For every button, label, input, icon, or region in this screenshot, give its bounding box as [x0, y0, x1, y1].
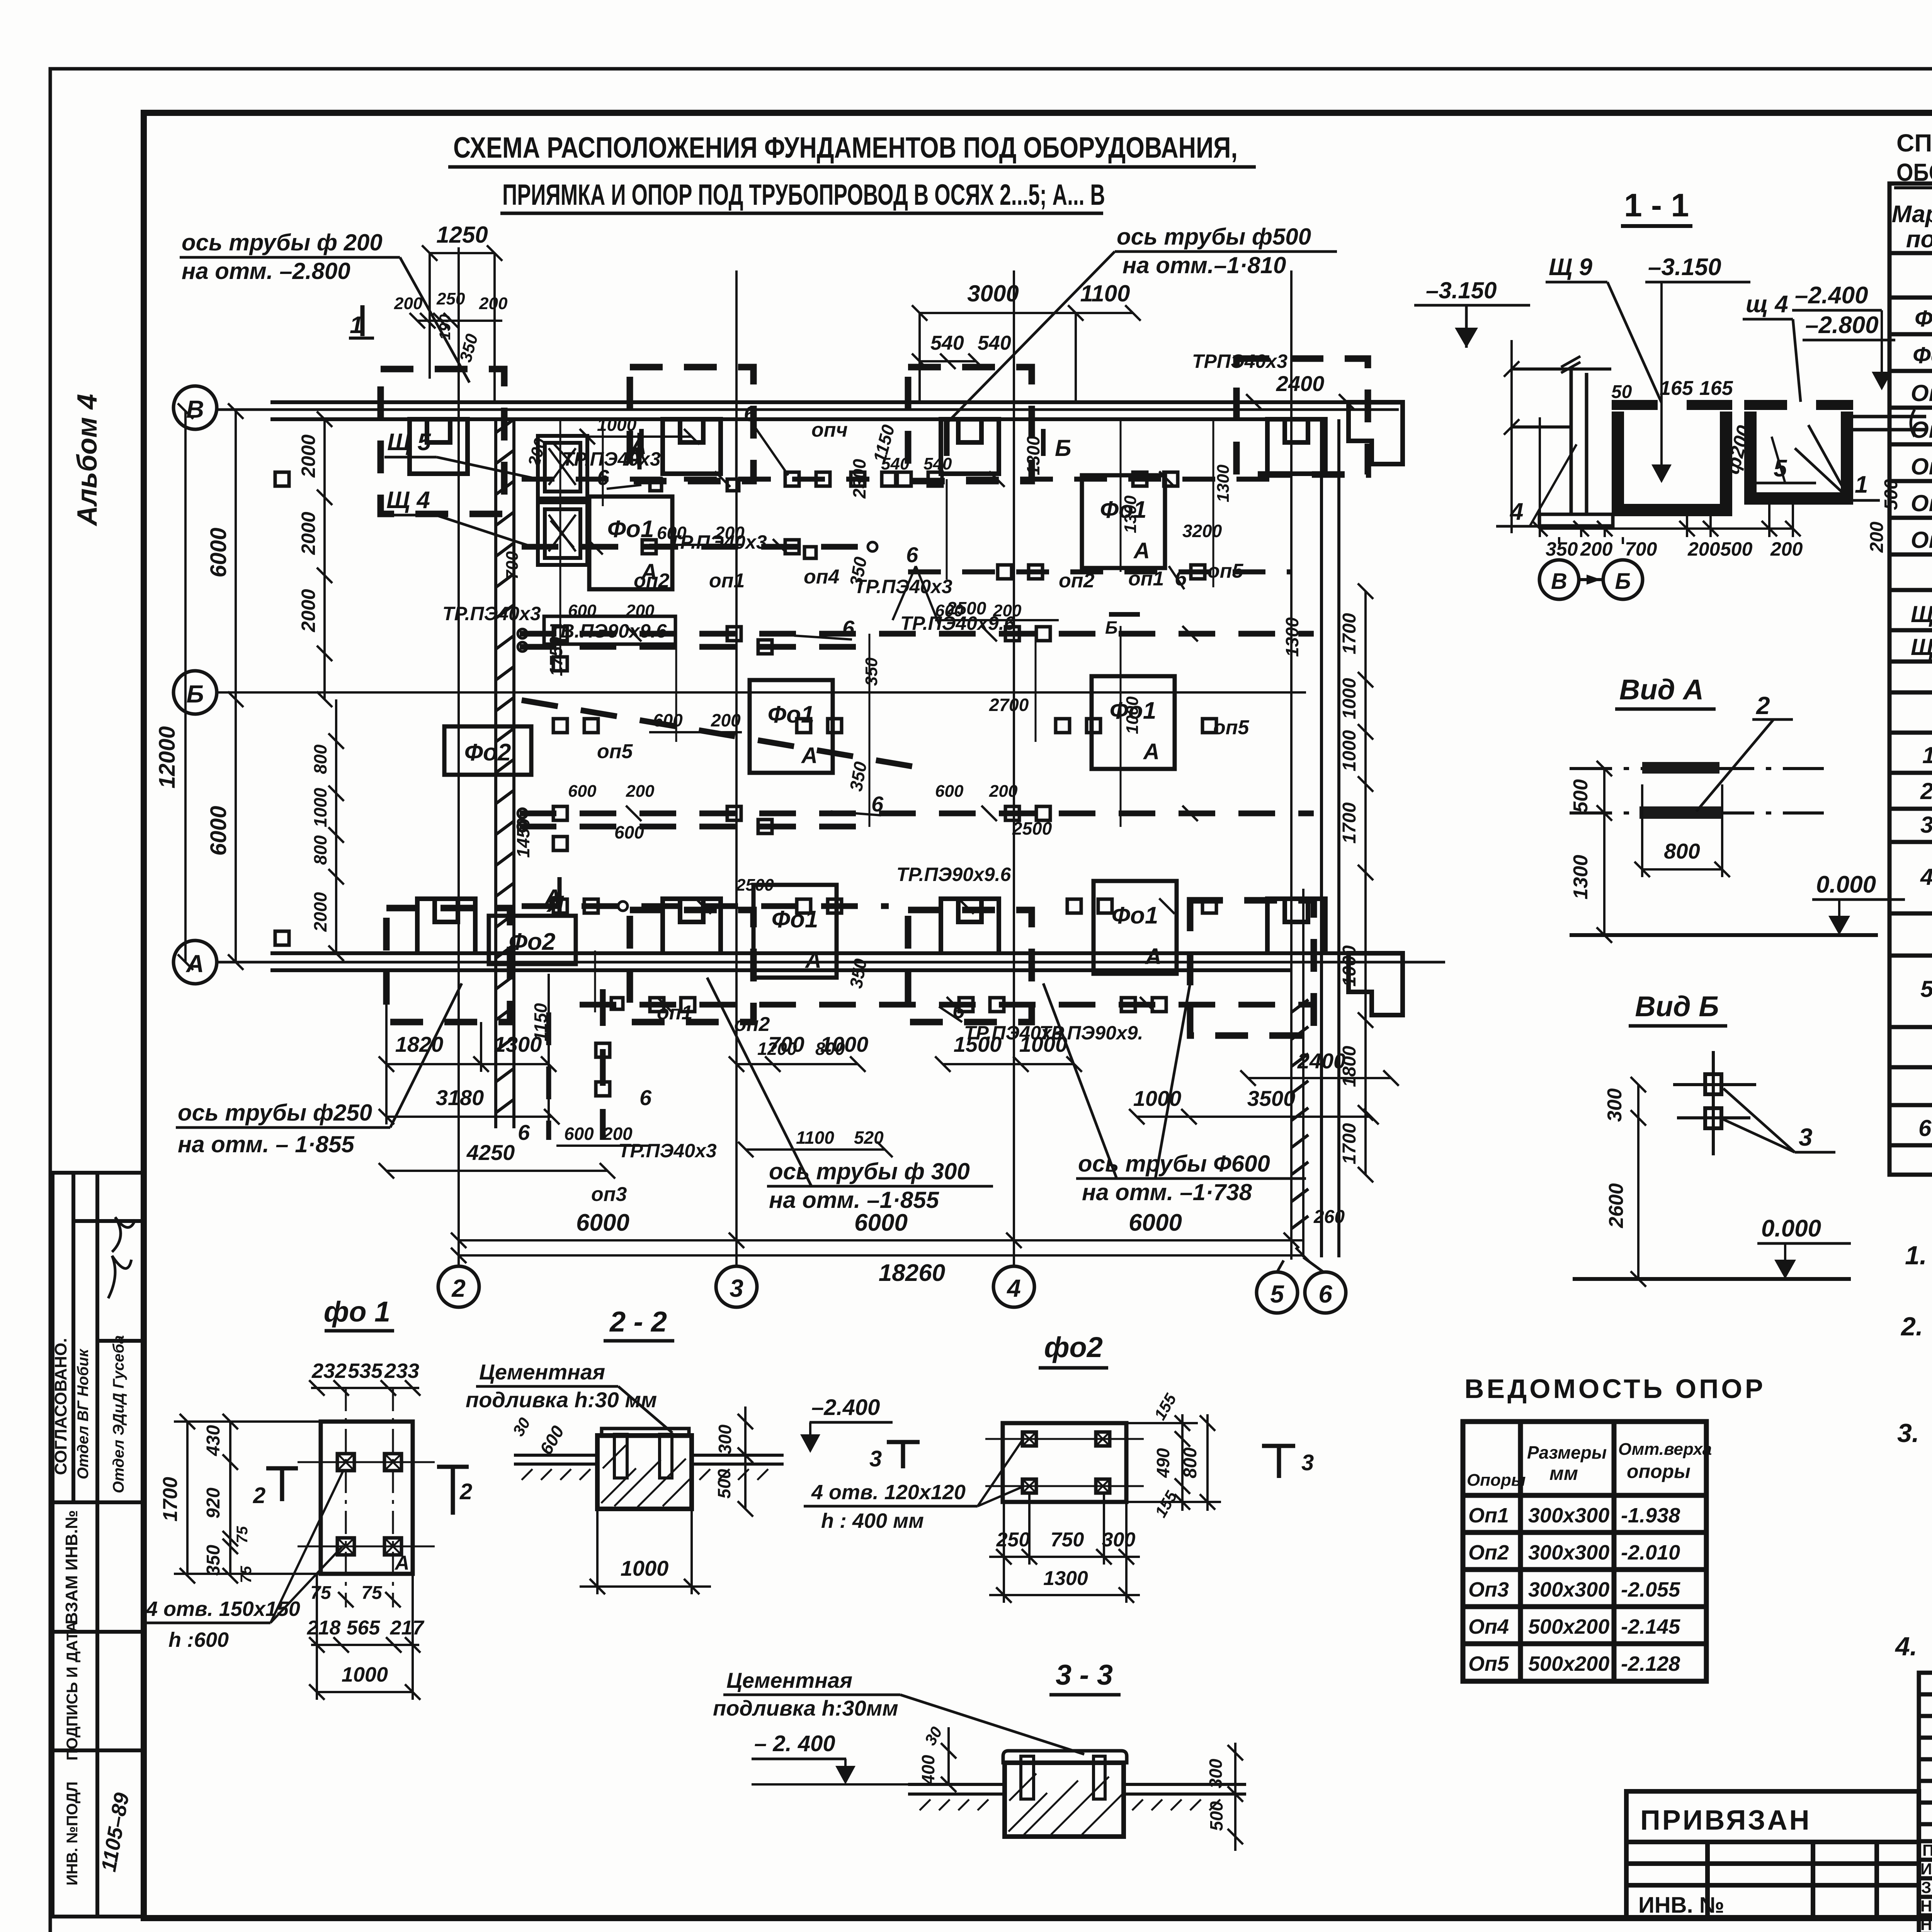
svg-text:Омт.верха: Омт.верха [1618, 1440, 1712, 1459]
svg-text:ПРИЯМКА И ОПОР ПОД ТРУБОПРОВОД: ПРИЯМКА И ОПОР ПОД ТРУБОПРОВОД В ОСЯХ 2.… [502, 179, 1105, 211]
section 1-1 labels [1546, 254, 1901, 553]
section 1-1 callout numbers [1496, 425, 1880, 526]
svg-text:430: 430 [203, 1425, 224, 1456]
svg-text:ТВ.ПЭ90х9.6: ТВ.ПЭ90х9.6 [549, 620, 667, 642]
svg-text:2.: 2. [1900, 1312, 1923, 1341]
fo2 slab [1003, 1423, 1126, 1502]
foundation Fo2 label 1 [444, 726, 531, 775]
svg-text:1150: 1150 [531, 1003, 551, 1041]
svg-text:4.: 4. [1895, 1632, 1917, 1661]
svg-text:ИНЖ.КАТ: ИНЖ.КАТ [1920, 1860, 1932, 1878]
foundation Fo1 block 1 [589, 497, 672, 589]
signature table [1919, 1673, 1932, 1932]
svg-text:600: 600 [935, 782, 964, 801]
svg-text:Щ5: Щ5 [1911, 634, 1932, 660]
right dimension chain [1358, 583, 1373, 1182]
svg-text:Б: Б [186, 680, 204, 708]
svg-text:3500: 3500 [1247, 1086, 1296, 1111]
svg-text:800: 800 [1180, 1447, 1201, 1478]
svg-text:оп2: оп2 [1059, 570, 1095, 592]
svg-text:на отм. –2.800: на отм. –2.800 [182, 258, 350, 284]
svg-text:2000: 2000 [298, 512, 319, 555]
svg-text:СПЕЦИФИКАЦИЯ К СХЕМЕ РАСПОЛО: СПЕЦИФИКАЦИЯ К СХЕМЕ РАСПОЛОЖЕНИЯ ФУНДАМ… [1896, 129, 1932, 157]
left dimension chains [178, 403, 344, 970]
svg-text:6: 6 [906, 543, 918, 567]
svg-text:540: 540 [923, 454, 952, 473]
svg-text:А: А [1145, 944, 1162, 969]
svg-text:2400: 2400 [1297, 1049, 1346, 1073]
level -3.150 top right [1414, 277, 1530, 348]
axis 6 vertical [1303, 889, 1346, 1313]
section 1-1 pipe right [1853, 410, 1926, 437]
svg-text:-2.055: -2.055 [1621, 1578, 1680, 1601]
svg-text:В: В [1551, 569, 1567, 594]
section mark B near top [641, 429, 1140, 614]
svg-text:ВЕДОМОСТЬ ОПОР: ВЕДОМОСТЬ ОПОР [1464, 1374, 1766, 1404]
svg-text:200: 200 [479, 294, 508, 313]
svg-text:ПОДПИСЬ И ДАТА: ПОДПИСЬ И ДАТА [64, 1621, 81, 1760]
svg-text:1750: 1750 [546, 636, 566, 676]
svg-text:500: 500 [1570, 779, 1592, 813]
wall pilasters (U shapes) [410, 402, 1403, 1015]
svg-text:200: 200 [1687, 538, 1720, 560]
spec rows [1911, 304, 1932, 1141]
svg-text:920: 920 [203, 1488, 224, 1519]
svg-text:оп2: оп2 [734, 1013, 770, 1036]
svg-text:Щ 4: Щ 4 [1911, 601, 1932, 627]
svg-text:Оп5: Оп5 [1911, 527, 1932, 553]
pipe run end circles [518, 542, 877, 911]
fo2 bottom dims [989, 1493, 1140, 1603]
svg-text:3 - 3: 3 - 3 [1056, 1659, 1113, 1691]
svg-text:800: 800 [310, 744, 330, 774]
svg-text:-2.145: -2.145 [1621, 1615, 1680, 1638]
svg-text:260: 260 [1313, 1207, 1345, 1227]
svg-text:щ 4: щ 4 [1746, 291, 1788, 318]
svg-text:600: 600 [564, 1124, 594, 1144]
svg-text:218: 218 [307, 1617, 341, 1639]
svg-text:Оп4: Оп4 [1911, 490, 1932, 516]
svg-text:6000: 6000 [1129, 1209, 1182, 1236]
svg-text:1450: 1450 [513, 818, 533, 858]
svg-text:6: 6 [597, 465, 609, 490]
small figure 6 labels with leaders [518, 401, 1187, 1145]
svg-text:350: 350 [203, 1545, 224, 1576]
callout pipe 200 [180, 230, 469, 383]
svg-text:h :600: h :600 [168, 1628, 229, 1651]
svg-text:Опоры: Опоры [1467, 1471, 1526, 1490]
svg-text:на отм. –1·855: на отм. –1·855 [769, 1187, 940, 1213]
svg-text:75: 75 [310, 1583, 332, 1603]
svg-text:Оп5: Оп5 [1468, 1652, 1509, 1675]
svg-text:Я: Я [546, 891, 564, 917]
svg-text:535: 535 [348, 1359, 383, 1383]
extra tick crosses along runs [587, 471, 1198, 1012]
op labels [591, 419, 1250, 1206]
svg-text:ТР.ПЭ40х3: ТР.ПЭ40х3 [964, 1022, 1063, 1044]
svg-text:1300: 1300 [1043, 1567, 1088, 1590]
svg-text:h : 400 мм: h : 400 мм [821, 1509, 924, 1532]
svg-text:опоры: опоры [1627, 1461, 1690, 1482]
svg-text:750: 750 [1051, 1529, 1084, 1551]
svg-text:мм: мм [1549, 1463, 1578, 1484]
svg-text:540: 540 [978, 332, 1011, 354]
svg-text:4: 4 [1006, 1274, 1021, 1302]
svg-text:А: А [394, 1552, 410, 1574]
svg-text:5: 5 [1270, 1280, 1284, 1308]
notes list [1895, 1241, 1932, 1696]
svg-text:1000: 1000 [342, 1663, 388, 1686]
svg-text:3.: 3. [1897, 1418, 1919, 1448]
svg-text:-1.938: -1.938 [1621, 1504, 1680, 1527]
axis 5 vertical [1257, 270, 1298, 1313]
svg-text:200: 200 [1580, 538, 1613, 560]
svg-text:– 2. 400: – 2. 400 [754, 1731, 835, 1756]
foundation Fo2 label 2 [489, 916, 576, 964]
3-3 block [1003, 1751, 1127, 1837]
foundation Fo1 block 6 [1094, 881, 1177, 974]
svg-text:1000: 1000 [597, 415, 637, 435]
svg-text:1100: 1100 [1080, 281, 1130, 306]
svg-text:2 - 2: 2 - 2 [609, 1306, 667, 1338]
svg-text:Щ 9: Щ 9 [1549, 254, 1593, 281]
view A dims [1576, 761, 1730, 943]
svg-text:ТРПЭ40х3: ТРПЭ40х3 [1192, 350, 1287, 372]
callout pipe 300 [707, 978, 993, 1213]
axis B(mid) horizontal [173, 671, 1306, 714]
svg-text:2: 2 [459, 1479, 472, 1504]
svg-text:600: 600 [614, 822, 644, 842]
svg-text:5: 5 [1920, 976, 1932, 1002]
svg-text:Б: Б [1105, 617, 1118, 638]
svg-text:1000: 1000 [1339, 945, 1360, 986]
svg-text:оп5: оп5 [1213, 716, 1250, 739]
svg-text:В: В [186, 395, 204, 423]
svg-text:Вид А: Вид А [1619, 673, 1704, 706]
svg-text:1300: 1300 [1121, 495, 1140, 533]
svg-text:2500: 2500 [1012, 818, 1052, 838]
svg-text:ПРОВЕР.: ПРОВЕР. [1922, 1841, 1932, 1859]
svg-text:СХЕМА РАСПОЛОЖЕНИЯ ФУНДАМЕНТОВ: СХЕМА РАСПОЛОЖЕНИЯ ФУНДАМЕНТОВ ПОД ОБОРУ… [453, 131, 1238, 164]
svg-text:на отм.–1·810: на отм.–1·810 [1122, 252, 1286, 278]
svg-text:Б: Б [1615, 569, 1631, 594]
svg-text:–2.400: –2.400 [1795, 282, 1868, 309]
svg-text:6000: 6000 [206, 806, 231, 855]
svg-text:Фо1: Фо1 [768, 701, 815, 728]
svg-text:2000: 2000 [310, 892, 330, 932]
svg-text:600: 600 [657, 523, 687, 543]
svg-text:ось трубы ф250: ось трубы ф250 [178, 1100, 372, 1126]
fo1 section marks 2 [266, 1467, 469, 1515]
fo2 section marks 3 [887, 1442, 1295, 1478]
svg-text:75: 75 [238, 1566, 255, 1583]
svg-text:350: 350 [862, 657, 881, 686]
svg-text:Альбом 4: Альбом 4 [72, 394, 103, 526]
svg-text:200: 200 [1770, 538, 1803, 560]
2-2 block [597, 1429, 692, 1509]
svg-text:6000: 6000 [576, 1209, 629, 1236]
fo1 top dims [309, 1380, 420, 1396]
additional pipe clutter [522, 479, 1291, 1140]
svg-text:Фо2: Фо2 [509, 929, 556, 955]
2-2 bottom dim [580, 1509, 711, 1594]
fo1 bolts [337, 1454, 401, 1555]
svg-text:ТР.ПЭ90х9.6: ТР.ПЭ90х9.6 [896, 864, 1012, 885]
svg-text:ось трубы ф500: ось трубы ф500 [1117, 224, 1311, 250]
svg-text:2500: 2500 [736, 876, 774, 895]
svg-text:6000: 6000 [854, 1209, 908, 1236]
svg-text:Оп1: Оп1 [1468, 1504, 1509, 1527]
svg-text:фо 1: фо 1 [324, 1296, 390, 1328]
svg-text:700: 700 [1625, 538, 1657, 560]
svg-text:-2.010: -2.010 [1621, 1541, 1680, 1564]
svg-text:800: 800 [815, 1039, 845, 1059]
fo1 slab [321, 1422, 413, 1574]
svg-text:1.: 1. [1905, 1241, 1927, 1270]
svg-text:1: 1 [1855, 471, 1868, 498]
svg-text:300: 300 [1102, 1529, 1136, 1551]
svg-text:500: 500 [1720, 538, 1753, 560]
fo2 centerlines [985, 1439, 1144, 1486]
svg-text:300х300: 300х300 [1528, 1578, 1609, 1601]
svg-text:оп1: оп1 [709, 570, 745, 592]
svg-text:1800: 1800 [1339, 1046, 1360, 1087]
svg-text:0.000: 0.000 [1816, 871, 1876, 898]
spec header texts [1892, 201, 1932, 298]
svg-text:300х300: 300х300 [1528, 1504, 1609, 1527]
svg-text:1000: 1000 [621, 1556, 669, 1580]
section mark A top and bottom [543, 433, 643, 912]
svg-text:2000: 2000 [298, 434, 319, 478]
anchor bolt squares [275, 472, 1178, 1096]
svg-text:ТР.ПЭ40х3: ТР.ПЭ40х3 [618, 1140, 717, 1162]
metal shields Sch5 Sch4 plan [538, 436, 587, 565]
svg-text:1700: 1700 [1339, 613, 1360, 654]
svg-text:3200: 3200 [1182, 521, 1222, 541]
svg-text:Щ 4: Щ 4 [386, 487, 430, 514]
svg-text:1: 1 [1922, 742, 1932, 768]
svg-text:2000: 2000 [298, 589, 319, 632]
fo1 left dims [174, 1414, 321, 1583]
3-3 dims [941, 1727, 1243, 1851]
svg-text:540: 540 [930, 332, 964, 354]
svg-text:2600: 2600 [1605, 1183, 1628, 1228]
svg-text:Н.КОНТР: Н.КОНТР [1920, 1897, 1932, 1915]
svg-text:6: 6 [639, 1085, 652, 1110]
callout pipe 500 [949, 224, 1337, 421]
svg-text:6: 6 [871, 792, 884, 816]
top dimension chains [410, 245, 1354, 410]
svg-text:700: 700 [503, 551, 522, 580]
svg-text:3: 3 [1301, 1450, 1314, 1475]
svg-text:0.000: 0.000 [1761, 1215, 1821, 1242]
svg-text:490: 490 [1153, 1448, 1173, 1478]
svg-text:12000: 12000 [155, 726, 180, 788]
svg-text:300: 300 [1206, 1759, 1226, 1788]
dim 600x200 top chains [556, 429, 1059, 1157]
axis 2 vertical [438, 247, 479, 1307]
svg-text:232: 232 [311, 1359, 347, 1383]
foundation Fo1 block 3 [750, 680, 833, 773]
svg-text:800: 800 [310, 835, 330, 865]
svg-text:6: 6 [518, 1120, 530, 1145]
svg-text:фо2: фо2 [1044, 1331, 1103, 1363]
svg-text:Размеры: Размеры [1527, 1442, 1607, 1463]
svg-text:500: 500 [714, 1469, 734, 1498]
3-3 floor lines [908, 1784, 1246, 1810]
section 1-1 channel 1 [1618, 412, 1726, 510]
axis 4 vertical [993, 270, 1034, 1307]
svg-text:2700: 2700 [989, 695, 1029, 715]
svg-text:565: 565 [347, 1617, 381, 1639]
svg-text:75: 75 [361, 1583, 383, 1603]
pipe labels [442, 350, 1287, 1162]
svg-text:4: 4 [1920, 864, 1932, 890]
svg-text:Марка,: Марка, [1892, 201, 1932, 228]
extra vertical extension lines [560, 419, 1213, 1012]
dashed foundation pit brackets [381, 359, 1368, 1036]
svg-text:ИНВ. №ПОДЛ: ИНВ. №ПОДЛ [64, 1781, 81, 1885]
svg-text:на отм. – 1·855: на отм. – 1·855 [178, 1131, 355, 1157]
svg-text:–3.150: –3.150 [1648, 254, 1721, 281]
callout pipe 600 [1043, 983, 1306, 1205]
svg-text:3: 3 [730, 1274, 743, 1302]
svg-text:600: 600 [653, 710, 683, 730]
svg-text:–3.150: –3.150 [1426, 277, 1497, 303]
top wall along axis B [270, 402, 1376, 419]
svg-text:Оп3: Оп3 [1468, 1578, 1509, 1601]
svg-text:300: 300 [1604, 1088, 1626, 1122]
svg-text:опч: опч [811, 419, 848, 441]
fo1 centerlines [298, 1388, 435, 1607]
svg-text:оп2: оп2 [634, 570, 670, 592]
svg-text:500: 500 [1206, 1801, 1226, 1831]
svg-text:подливка h:30 мм: подливка h:30 мм [466, 1388, 657, 1412]
svg-text:50: 50 [1611, 382, 1632, 402]
svg-text:350: 350 [1546, 538, 1578, 560]
bottom dimension chains [379, 974, 1399, 1263]
svg-text:ТР.ПЭ40х3: ТР.ПЭ40х3 [442, 603, 541, 624]
svg-text:217: 217 [390, 1617, 425, 1639]
svg-text:Оп2: Оп2 [1468, 1541, 1509, 1564]
svg-text:2: 2 [1756, 692, 1770, 719]
svg-text:оп1: оп1 [1128, 568, 1164, 590]
svg-text:200: 200 [1867, 522, 1887, 553]
svg-text:Фо1: Фо1 [1112, 902, 1158, 929]
svg-text:3180: 3180 [436, 1085, 484, 1110]
svg-text:1000: 1000 [1133, 1086, 1182, 1111]
section 1-1 bottom dims [1532, 417, 1801, 544]
svg-text:Оп3: Оп3 [1911, 454, 1932, 480]
svg-text:–2.400: –2.400 [811, 1395, 880, 1420]
svg-text:1700: 1700 [1339, 802, 1360, 844]
section 1-1 channel 2 [1750, 412, 1847, 498]
svg-text:–2.800: –2.800 [1805, 312, 1879, 338]
svg-text:1300: 1300 [1023, 435, 1043, 475]
svg-text:1250: 1250 [436, 222, 488, 248]
svg-text:200: 200 [989, 782, 1018, 801]
svg-text:подливка h:30мм: подливка h:30мм [713, 1696, 898, 1720]
svg-text:оп5: оп5 [597, 740, 633, 763]
svg-text:500х200: 500х200 [1528, 1652, 1609, 1675]
foundation Fo1 block 2 [1082, 475, 1165, 568]
svg-text:оп5: оп5 [1207, 560, 1244, 582]
axis 3 vertical [716, 270, 757, 1307]
svg-text:200: 200 [714, 523, 745, 543]
section 1-1 left wall [1504, 340, 1613, 533]
svg-text:Фо1: Фо1 [1915, 306, 1932, 332]
svg-text:500: 500 [1881, 479, 1901, 510]
svg-text:300: 300 [715, 1424, 735, 1454]
more anchor bolts [553, 472, 1216, 1012]
2-2 floor lines [514, 1455, 784, 1480]
svg-text:Вид Б: Вид Б [1635, 990, 1719, 1022]
svg-text:А: А [1133, 538, 1150, 563]
fo1 bottom dims [305, 1574, 420, 1700]
svg-text:оп1: оп1 [657, 1002, 692, 1024]
axis B horizontal [173, 386, 1399, 429]
svg-text:Фо2: Фо2 [464, 739, 511, 766]
2-2 right dims [738, 1406, 753, 1517]
svg-text:-2.128: -2.128 [1621, 1652, 1680, 1675]
svg-text:1700: 1700 [1339, 1123, 1360, 1164]
svg-text:Оп1: Оп1 [1911, 380, 1932, 406]
foundation Fo1 block 5 [753, 885, 837, 978]
svg-text:2: 2 [451, 1274, 466, 1302]
shield labels [384, 429, 538, 549]
svg-text:250: 250 [436, 289, 465, 308]
svg-text:Отдел ЭДиД Гусеба: Отдел ЭДиД Гусеба [110, 1335, 127, 1493]
svg-text:250: 250 [996, 1529, 1030, 1551]
svg-text:200: 200 [394, 294, 423, 313]
foundation Fo1 block 4 [1092, 676, 1175, 769]
svg-text:ось трубы ф 200: ось трубы ф 200 [182, 230, 383, 255]
svg-text:НАЧ.ОТД: НАЧ.ОТД [1920, 1915, 1932, 1932]
dashed pipe runs [520, 419, 1314, 1140]
specification table grid [1889, 184, 1932, 1175]
svg-text:3: 3 [1920, 812, 1932, 838]
svg-text:18260: 18260 [879, 1260, 945, 1286]
bolts view B [1705, 1074, 1721, 1128]
svg-text:СОГЛАСОВАНО.: СОГЛАСОВАНО. [51, 1338, 70, 1475]
svg-text:ПРИВЯЗАН: ПРИВЯЗАН [1640, 1805, 1811, 1836]
svg-text:2400: 2400 [1276, 371, 1325, 396]
section 1-1 axis circles [1539, 560, 1643, 599]
left sidebar stamp table [53, 1173, 144, 1917]
svg-text:А: А [1143, 739, 1160, 764]
svg-text:3: 3 [1799, 1123, 1813, 1151]
svg-text:1000: 1000 [1339, 730, 1360, 771]
view B dims [1631, 1077, 1646, 1287]
svg-text:на отм. –1·738: на отм. –1·738 [1082, 1179, 1252, 1205]
extra small dim labels [503, 436, 1233, 895]
svg-text:200: 200 [602, 1124, 633, 1144]
svg-text:2: 2 [253, 1483, 265, 1508]
svg-text:1700: 1700 [159, 1477, 182, 1522]
svg-text:400: 400 [918, 1755, 938, 1785]
svg-text:3: 3 [869, 1446, 882, 1471]
svg-text:1100: 1100 [796, 1128, 834, 1148]
callout pipe 250 [176, 983, 462, 1157]
svg-text:оп3: оп3 [591, 1183, 627, 1206]
svg-text:Отдел ВГ Нобик: Отдел ВГ Нобик [75, 1349, 92, 1480]
svg-text:1300: 1300 [1570, 855, 1592, 900]
svg-text:600: 600 [568, 782, 597, 801]
svg-text:200: 200 [626, 782, 655, 801]
svg-text:1000: 1000 [1339, 678, 1360, 719]
privyazan box [1626, 1791, 1919, 1918]
svg-text:2500: 2500 [946, 598, 986, 618]
